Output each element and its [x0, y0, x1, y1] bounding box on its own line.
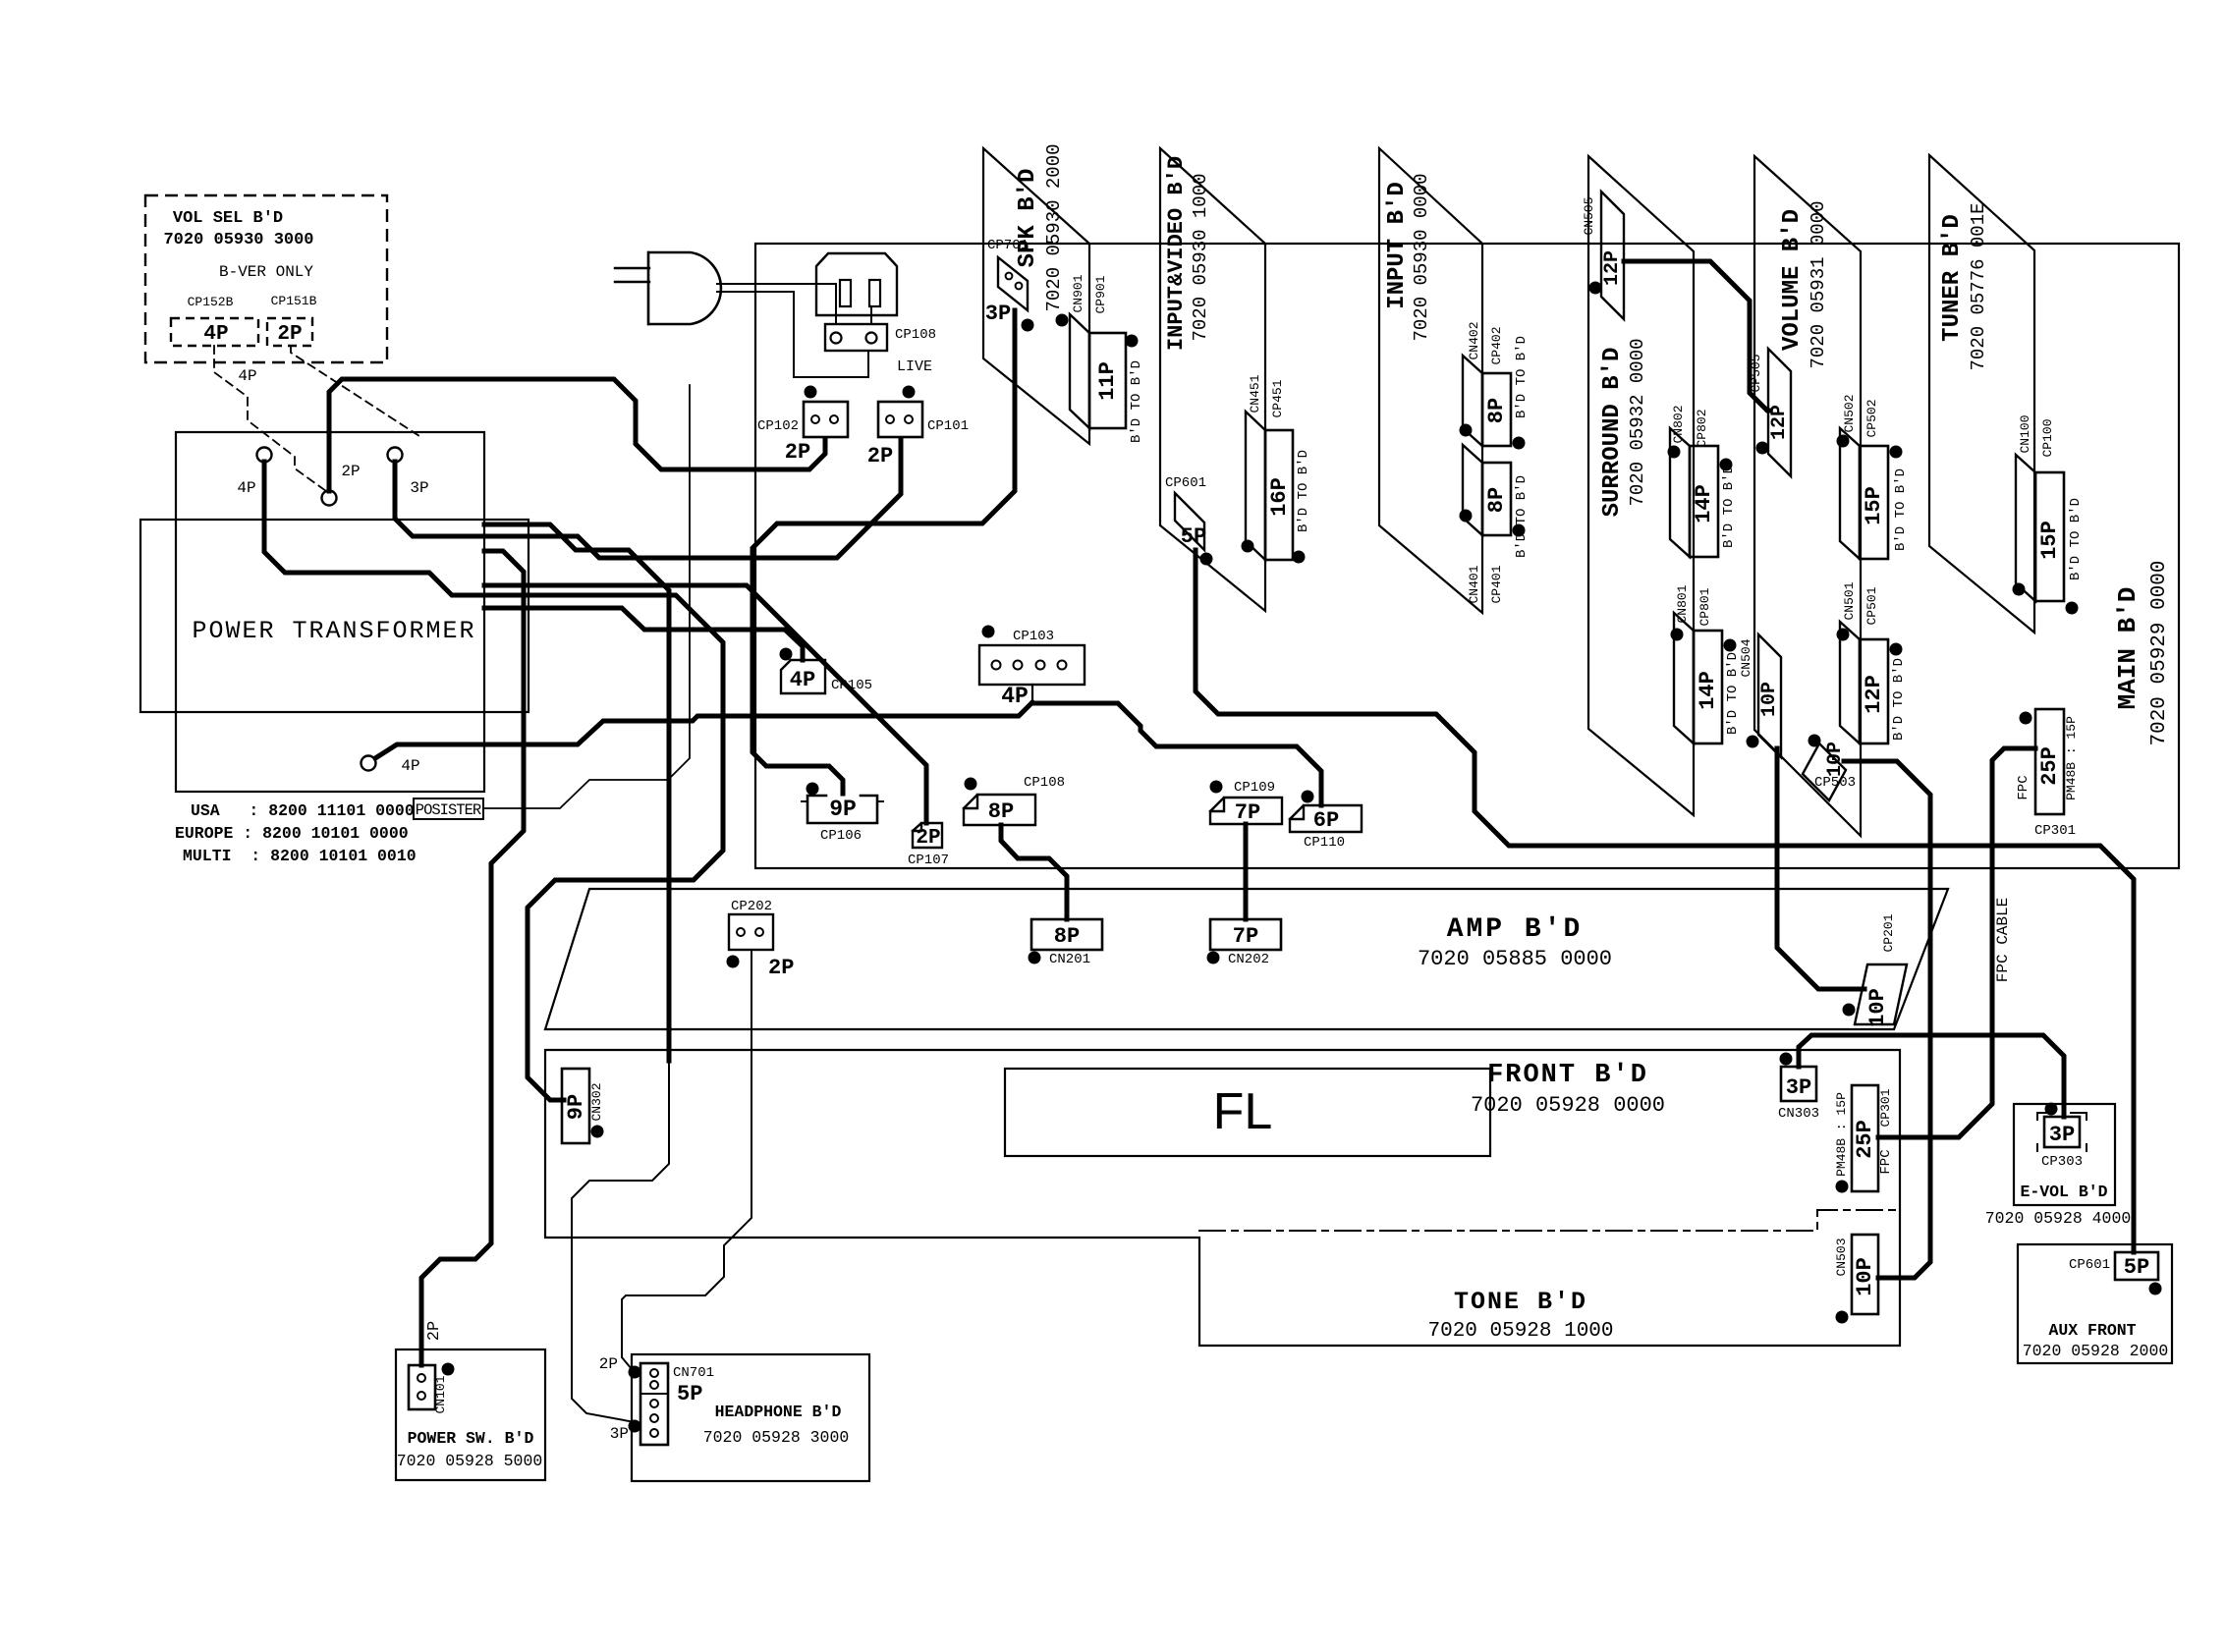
svg-text:CN402: CN402 — [1467, 321, 1481, 359]
wire SPK CP701 3P to CP106 9P — [752, 310, 1015, 794]
terminal 2P (circle) — [322, 463, 361, 506]
AC inlet connector — [816, 253, 897, 315]
connector CP701 3P — [985, 238, 1034, 332]
svg-text:8P: 8P — [1054, 924, 1080, 949]
board E-VOL B'D — [1985, 1104, 2132, 1228]
svg-text:8P: 8P — [988, 799, 1014, 824]
svg-text:B'D TO B'D: B'D TO B'D — [2068, 498, 2084, 580]
connector CN901/CP901 11P — [1056, 274, 1145, 443]
svg-text:CP106: CP106 — [820, 828, 862, 844]
svg-text:SURROUND B'D: SURROUND B'D — [1599, 348, 1626, 518]
svg-text:7P: 7P — [1235, 800, 1260, 825]
terminal 4P bottom (circle) — [362, 756, 420, 776]
svg-text:25P: 25P — [1853, 1120, 1877, 1159]
svg-text:9P: 9P — [829, 797, 857, 822]
wire transformer 4P to CN302 9P (via long run) — [264, 462, 723, 1100]
svg-text:CP202: CP202 — [731, 899, 772, 914]
connector CP152B 4P (dashed) — [171, 295, 258, 346]
svg-text:2P: 2P — [768, 956, 794, 980]
board VOL SEL B'D (dashed outline) — [145, 195, 387, 362]
connector CN401/CP401 8P — [1460, 445, 1530, 604]
svg-text:B'D TO B'D: B'D TO B'D — [1296, 450, 1311, 532]
svg-text:CN101: CN101 — [433, 1375, 448, 1413]
connector CP107 2P — [908, 823, 949, 868]
wire CN303 3P to CP303 3P — [1799, 1035, 2064, 1117]
connector CN501/CP501 12P — [1837, 581, 1908, 743]
connector CP601 5P (input-video) — [1165, 475, 1213, 566]
text EUROPE part number — [175, 824, 409, 843]
connector CN302 9P — [562, 1069, 604, 1143]
connector CP503 10P — [1803, 735, 1856, 801]
connector CP151B 2P (dashed) — [267, 294, 317, 346]
wire CP105 4P to transformer area — [484, 608, 803, 660]
connector CN101 2P — [409, 1363, 455, 1414]
svg-text:CN401: CN401 — [1467, 565, 1481, 603]
svg-text:CN701: CN701 — [673, 1365, 714, 1381]
wire AC cord line 2 (LIVE) — [717, 292, 932, 377]
svg-text:CP301: CP301 — [2034, 823, 2076, 839]
svg-text:2P: 2P — [341, 463, 360, 480]
connector CP105 4P — [780, 648, 873, 694]
board MAIN B'D (large rectangle) — [755, 244, 2179, 868]
svg-text:CN503: CN503 — [1834, 1238, 1849, 1276]
wire CP108 8P to CN201 8P — [1001, 825, 1067, 919]
connector CP106 9P — [802, 783, 883, 845]
svg-text:CN801: CN801 — [1675, 584, 1690, 623]
svg-text:15P: 15P — [2037, 521, 2062, 560]
terminal 4P (circle) — [237, 448, 271, 498]
svg-text:CP108: CP108 — [1024, 775, 1065, 791]
board POWER TRANSFORMER terminal box — [176, 432, 484, 792]
svg-text:7020 05931 0000: 7020 05931 0000 — [1808, 200, 1829, 368]
svg-text:7020 05928 5000: 7020 05928 5000 — [397, 1452, 543, 1470]
POSISTER box — [414, 798, 483, 819]
svg-text:3P: 3P — [610, 1425, 629, 1443]
svg-text:5P: 5P — [1181, 524, 1206, 549]
connector CN503 10P — [1834, 1235, 1878, 1324]
svg-text:CN302: CN302 — [589, 1082, 604, 1121]
svg-text:TUNER B'D: TUNER B'D — [1939, 214, 1966, 342]
svg-text:MAIN B'D: MAIN B'D — [2113, 587, 2143, 710]
connector CN505 12P — [1582, 192, 1624, 319]
svg-text:4P: 4P — [203, 323, 228, 346]
wire CP103 to CP110 6P — [1032, 703, 1321, 805]
dash-dot section boundary (tone board) — [1199, 1210, 1900, 1231]
svg-text:7020 05928 2000: 7020 05928 2000 — [2023, 1342, 2169, 1360]
svg-text:CN504: CN504 — [1739, 638, 1753, 677]
svg-text:AMP B'D: AMP B'D — [1447, 914, 1584, 945]
svg-text:CP102: CP102 — [757, 418, 799, 434]
svg-text:CP402: CP402 — [1489, 326, 1504, 364]
wire bundle vertical to CN701 junction (thick upper) — [484, 524, 669, 1061]
svg-text:7020 05928 4000: 7020 05928 4000 — [1985, 1209, 2132, 1228]
board HEADPHONE B'D — [632, 1354, 869, 1481]
svg-text:CN100: CN100 — [2018, 414, 2032, 453]
connector CN202 7P — [1207, 919, 1282, 967]
svg-text:8P: 8P — [1484, 487, 1509, 513]
svg-text:AUX FRONT: AUX FRONT — [2048, 1321, 2136, 1340]
svg-text:CP501: CP501 — [1864, 586, 1879, 625]
svg-text:CP201: CP201 — [1881, 913, 1896, 952]
board INPUT&VIDEO B'D (parallelogram) — [1160, 148, 1265, 611]
svg-text:4P: 4P — [1001, 684, 1029, 709]
svg-text:14P: 14P — [1692, 484, 1716, 523]
svg-text:6P: 6P — [1313, 808, 1339, 833]
svg-text:CP151B: CP151B — [271, 294, 317, 308]
terminal 3P (circle) — [388, 448, 429, 498]
connector CN701 5P — [599, 1355, 714, 1445]
wire CP202 2P to CN701 (thin) — [622, 950, 751, 1369]
svg-text:HEADPHONE B'D: HEADPHONE B'D — [715, 1403, 842, 1421]
svg-text:MULTI : 8200 10101 0010: MULTI : 8200 10101 0010 — [183, 847, 417, 865]
svg-text:CP303: CP303 — [2041, 1154, 2083, 1170]
svg-text:3P: 3P — [410, 479, 428, 497]
svg-text:B'D TO B'D: B'D TO B'D — [1514, 336, 1530, 418]
svg-text:CN303: CN303 — [1778, 1106, 1819, 1122]
svg-text:15P: 15P — [1862, 486, 1886, 525]
svg-text:7020 05930 2000: 7020 05930 2000 — [1043, 143, 1065, 311]
connector CP101 2P — [867, 386, 969, 469]
svg-text:7020 05928 3000: 7020 05928 3000 — [703, 1428, 850, 1447]
svg-text:4P: 4P — [790, 668, 815, 692]
svg-text:FPC CABLE: FPC CABLE — [1994, 898, 2012, 982]
svg-text:3P: 3P — [985, 302, 1011, 326]
svg-text:CP801: CP801 — [1697, 587, 1712, 626]
svg-text:CP301: CP301 — [1878, 1088, 1893, 1127]
connector CN402/CP402 8P — [1460, 321, 1530, 449]
svg-text:B'D TO B'D: B'D TO B'D — [1893, 468, 1909, 551]
svg-text:CP108: CP108 — [895, 327, 936, 343]
svg-text:2P: 2P — [599, 1355, 618, 1373]
svg-text:8P: 8P — [1484, 398, 1509, 423]
svg-text:7020 05929 0000: 7020 05929 0000 — [2148, 560, 2171, 745]
connector CP109 7P — [1210, 780, 1283, 825]
svg-text:7020 05928 1000: 7020 05928 1000 — [1427, 1320, 1613, 1343]
svg-text:7020 05885 0000: 7020 05885 0000 — [1418, 947, 1612, 971]
svg-text:4P: 4P — [237, 479, 255, 497]
FL display window — [1005, 1069, 1490, 1156]
svg-text:VOL SEL B'D: VOL SEL B'D — [173, 209, 283, 228]
text MULTI part number — [183, 847, 417, 865]
svg-text:5P: 5P — [677, 1382, 702, 1406]
board TUNER B'D (parallelogram) — [1929, 155, 2034, 633]
board SURROUND B'D (parallelogram) — [1588, 156, 1694, 815]
connector CP301 25P FPC (main board) — [2016, 709, 2079, 839]
svg-text:5P: 5P — [2124, 1255, 2149, 1280]
wire dashed CP152B to transformer 2P — [214, 346, 326, 491]
svg-text:CP503: CP503 — [1814, 775, 1856, 791]
svg-text:CP103: CP103 — [1013, 629, 1054, 644]
svg-text:B-VER ONLY: B-VER ONLY — [219, 263, 313, 281]
svg-text:12P: 12P — [1862, 675, 1886, 714]
board AMP B'D (parallelogram) — [545, 889, 1948, 1029]
svg-text:CN202: CN202 — [1228, 952, 1269, 967]
svg-text:CN802: CN802 — [1671, 405, 1686, 443]
connector CN504 10P — [1739, 634, 1781, 757]
svg-text:CP802: CP802 — [1695, 409, 1709, 447]
board POWER TRANSFORMER label box — [140, 520, 529, 712]
svg-text:CP901: CP901 — [1093, 275, 1108, 313]
connector CP102 2P — [757, 386, 848, 466]
svg-text:7020 05928 0000: 7020 05928 0000 — [1471, 1093, 1665, 1118]
svg-text:CP107: CP107 — [908, 853, 949, 868]
svg-text:10P: 10P — [1865, 988, 1890, 1027]
connector CP601 5P (aux front) — [2069, 1252, 2162, 1295]
svg-text:7020 05930 3000: 7020 05930 3000 — [163, 231, 313, 249]
connector CP301 25P FPC (front board) — [1834, 1085, 1894, 1193]
board POWER SW B'D — [396, 1349, 545, 1480]
svg-text:2P: 2P — [785, 440, 810, 465]
svg-text:FRONT B'D: FRONT B'D — [1487, 1061, 1648, 1090]
svg-text:10P: 10P — [1853, 1257, 1877, 1296]
connector CP110 6P — [1290, 791, 1362, 852]
board AUX FRONT — [2018, 1244, 2172, 1363]
svg-text:B'D TO B'D: B'D TO B'D — [1891, 658, 1907, 741]
wire transformer 3P to CP101 — [395, 439, 901, 558]
connector CN451/CP451 16P — [1242, 374, 1312, 563]
svg-text:7P: 7P — [1233, 924, 1258, 949]
svg-text:2P: 2P — [867, 444, 893, 468]
svg-text:25P: 25P — [2037, 746, 2062, 786]
board FRONT B'D / TONE B'D outline — [545, 1050, 1900, 1346]
board SPK B'D (parallelogram) — [983, 143, 1089, 444]
connector CN802/CP802 14P — [1668, 405, 1738, 557]
wire long diagonal to CP107 2P — [484, 585, 926, 823]
wire CP301 25P main to CP301 25P front (FPC cable) — [1878, 748, 2035, 1137]
wire dashed CP151B toward junction — [291, 346, 422, 438]
svg-text:CP601: CP601 — [2069, 1257, 2110, 1273]
connector CP108 8P — [964, 775, 1065, 825]
wire CP503 10P to CN503 10P — [1844, 761, 1930, 1278]
board INPUT B'D (parallelogram) — [1379, 148, 1482, 613]
svg-text:CN501: CN501 — [1842, 581, 1857, 620]
svg-text:FPC: FPC — [2016, 775, 2031, 799]
svg-text:B'D TO B'D: B'D TO B'D — [1721, 466, 1737, 548]
svg-text:CN505: CN505 — [1582, 196, 1596, 235]
svg-text:CN451: CN451 — [1248, 374, 1262, 413]
svg-text:VOLUME B'D: VOLUME B'D — [1779, 209, 1806, 351]
svg-text:EUROPE : 8200 10101 0000: EUROPE : 8200 10101 0000 — [175, 824, 409, 843]
svg-text:FL: FL — [1213, 1083, 1273, 1140]
svg-text:7020 05932 0000: 7020 05932 0000 — [1627, 338, 1648, 506]
svg-text:POWER SW. B'D: POWER SW. B'D — [408, 1429, 534, 1448]
connector CP103 4P — [979, 626, 1085, 710]
wire POSISTER link (thin) — [483, 385, 690, 808]
svg-text:3P: 3P — [2049, 1123, 2075, 1147]
board VOLUME B'D (parallelogram) — [1754, 156, 1861, 836]
svg-text:CP100: CP100 — [2040, 418, 2055, 457]
svg-text:2P: 2P — [916, 827, 940, 850]
svg-text:B'D TO B'D: B'D TO B'D — [1514, 475, 1530, 558]
svg-text:CN201: CN201 — [1049, 952, 1090, 967]
svg-text:CP451: CP451 — [1270, 379, 1285, 417]
wire CN505 12P to CP505 12P — [1624, 261, 1769, 411]
wire CP109 7P to CN202 7P — [1244, 824, 1249, 919]
svg-text:CP502: CP502 — [1864, 399, 1879, 437]
wire transformer 2P to CP102 — [329, 379, 825, 491]
svg-text:FPC: FPC — [1878, 1149, 1894, 1174]
wire CP601 5P to AUX FRONT 5P — [1196, 550, 2134, 1252]
connector CP108 (AC 2P) — [825, 306, 936, 351]
svg-text:7020 05930 0000: 7020 05930 0000 — [1411, 173, 1432, 341]
svg-text:CP109: CP109 — [1234, 780, 1275, 796]
svg-text:CN502: CN502 — [1842, 394, 1857, 432]
wire AC cord line 1 — [717, 284, 836, 324]
svg-text:3P: 3P — [1786, 1075, 1811, 1100]
wire CN101 2P long run — [421, 551, 524, 1365]
svg-text:16P: 16P — [1267, 477, 1292, 517]
svg-text:INPUT&VIDEO B'D: INPUT&VIDEO B'D — [1164, 156, 1189, 351]
svg-text:CP110: CP110 — [1304, 835, 1345, 851]
wire junction to CN701 3P (thin lower) — [572, 1059, 669, 1422]
svg-text:10P: 10P — [1758, 682, 1781, 717]
svg-text:INPUT B'D: INPUT B'D — [1384, 182, 1411, 309]
svg-text:USA : 8200 11101 0000: USA : 8200 11101 0000 — [191, 801, 415, 820]
connector CP202 2P — [727, 899, 795, 980]
svg-text:E-VOL B'D: E-VOL B'D — [2020, 1183, 2107, 1201]
svg-text:12P: 12P — [1601, 250, 1624, 286]
svg-text:CP101: CP101 — [927, 418, 969, 434]
svg-text:7020 05776 001E: 7020 05776 001E — [1968, 202, 1989, 370]
svg-text:4P: 4P — [238, 367, 256, 385]
svg-text:LIVE: LIVE — [897, 358, 932, 375]
svg-text:CP152B: CP152B — [188, 295, 234, 309]
svg-text:11P: 11P — [1095, 361, 1120, 401]
svg-text:9P: 9P — [564, 1094, 588, 1120]
svg-text:2P: 2P — [425, 1321, 444, 1341]
svg-text:CP601: CP601 — [1165, 475, 1206, 491]
svg-text:CP701: CP701 — [987, 238, 1029, 253]
svg-text:14P: 14P — [1696, 671, 1720, 710]
connector CP303 3P — [2037, 1103, 2087, 1171]
svg-text:CN901: CN901 — [1071, 274, 1085, 312]
connector CN303 3P — [1778, 1053, 1819, 1123]
svg-text:TONE B'D: TONE B'D — [1454, 1288, 1587, 1316]
svg-text:POWER TRANSFORMER: POWER TRANSFORMER — [192, 617, 475, 645]
connector CN801/CP801 14P — [1671, 584, 1742, 743]
svg-text:7020 05930 1000: 7020 05930 1000 — [1190, 173, 1211, 341]
svg-text:4P: 4P — [401, 757, 419, 775]
text USA part number — [191, 801, 415, 820]
wire transformer bottom 4P to CP103 — [375, 702, 1032, 758]
connector CN502/CP502 15P — [1837, 394, 1910, 559]
connector CN201 8P — [1029, 919, 1103, 967]
svg-text:2P: 2P — [277, 323, 302, 346]
connector CP505 12P — [1749, 349, 1791, 476]
connector CN100/CP100 15P — [2013, 414, 2085, 614]
svg-text:PM48B : 15P: PM48B : 15P — [1834, 1092, 1849, 1177]
svg-text:B'D TO B'D: B'D TO B'D — [1129, 360, 1144, 443]
svg-text:PM48B : 15P: PM48B : 15P — [2064, 716, 2079, 800]
connector CP201 10P — [1843, 913, 1908, 1027]
svg-text:POSISTER: POSISTER — [416, 801, 481, 819]
svg-text:CP401: CP401 — [1489, 565, 1504, 603]
wire CN504 10P to CP201 10P — [1777, 748, 1864, 989]
AC plug — [615, 252, 721, 324]
